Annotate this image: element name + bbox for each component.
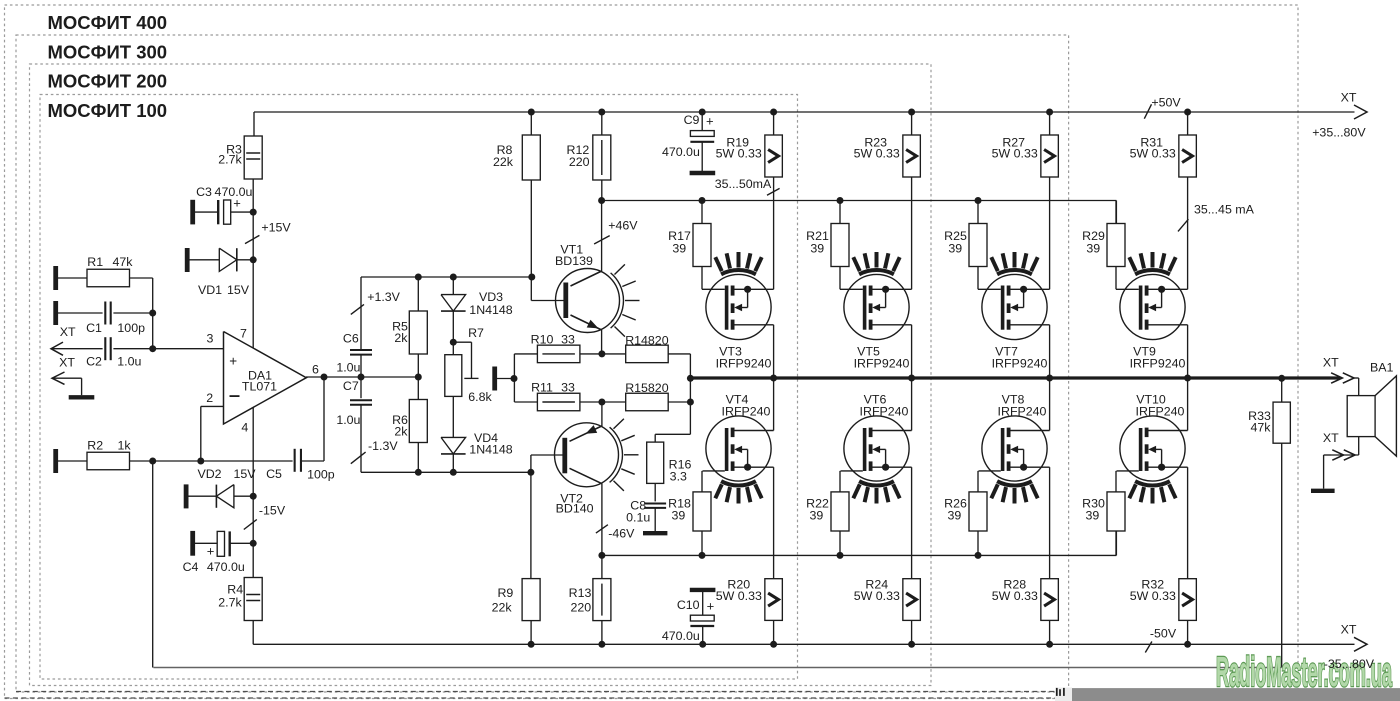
- svg-text:35...50mA: 35...50mA: [715, 177, 772, 191]
- svg-text:XT: XT: [1341, 623, 1357, 637]
- node XT arrow +50V: [1354, 105, 1367, 119]
- svg-text:R1: R1: [87, 255, 103, 269]
- wire C1 right: [113, 312, 152, 314]
- wire R8 top: [530, 112, 532, 135]
- wire VD3 top: [452, 277, 454, 295]
- wire R13 bottom: [601, 621, 603, 645]
- wire -50V rail: [253, 619, 1354, 644]
- svg-text:39: 39: [810, 242, 824, 256]
- capacitor C8: [644, 504, 666, 508]
- svg-text:15V: 15V: [227, 283, 250, 297]
- label -46V: [608, 527, 635, 541]
- label МОСФИТ 400: [48, 12, 168, 33]
- wire C8 bottom: [654, 508, 656, 531]
- wire VT2 emitter: [601, 402, 603, 426]
- watermark RadioMaster: [1216, 648, 1392, 695]
- label pin6: [312, 363, 319, 377]
- junction VT7 bus node: [1046, 375, 1053, 382]
- resistor R5: [409, 311, 427, 354]
- junction R5R6 node: [415, 374, 422, 381]
- node -46V tick: [596, 525, 608, 533]
- label R28 value: [992, 589, 1038, 603]
- svg-text:22k: 22k: [493, 155, 514, 169]
- svg-text:1.0u: 1.0u: [117, 355, 141, 369]
- junction VD1 node: [250, 256, 257, 263]
- wire R33 top: [1281, 378, 1283, 402]
- junction C2 node: [149, 345, 156, 352]
- wire R18 bottom: [701, 531, 703, 555]
- label VT7: [995, 345, 1018, 359]
- label R8: [497, 143, 513, 157]
- svg-text:IRFP240: IRFP240: [860, 405, 909, 419]
- label VT2: [560, 491, 583, 505]
- svg-text:4: 4: [241, 421, 248, 435]
- svg-text:МОСФИТ 300: МОСФИТ 300: [48, 41, 168, 62]
- label R13: [569, 586, 592, 600]
- resistor R9: [522, 579, 540, 621]
- wire output bus: [690, 376, 1340, 379]
- label XT output: [1323, 356, 1339, 370]
- label R20: [727, 578, 750, 592]
- label VD2 value: [233, 467, 256, 481]
- resistor R19: [765, 135, 783, 177]
- label R16: [669, 458, 692, 472]
- label VT6 type: [860, 405, 909, 419]
- wire R22 bottom: [839, 531, 841, 555]
- label R21 value: [810, 242, 824, 256]
- label +15V: [261, 221, 291, 235]
- svg-text:470.0u: 470.0u: [215, 185, 253, 199]
- svg-text:0.1u: 0.1u: [626, 511, 650, 525]
- svg-text:2.7k: 2.7k: [218, 153, 242, 167]
- wire R5 top: [417, 277, 419, 311]
- node XT arrow gnd: [52, 372, 65, 384]
- label R11 value: [561, 381, 575, 395]
- svg-text:5W 0.33: 5W 0.33: [716, 589, 762, 603]
- label R4 value: [218, 596, 242, 610]
- ground output: [1311, 489, 1335, 493]
- label R10: [531, 333, 554, 347]
- resistor R8: [522, 135, 540, 180]
- resistor R3: [244, 136, 262, 179]
- label VD1 value: [227, 283, 250, 297]
- svg-text:+1.3V: +1.3V: [367, 290, 400, 304]
- wire return to ground: [1324, 455, 1331, 489]
- label R32: [1141, 578, 1164, 592]
- label R24: [865, 578, 888, 592]
- junction VT9 bus node: [1184, 375, 1191, 382]
- transistor VT6: [841, 416, 912, 504]
- junction R24 rail node: [908, 641, 915, 648]
- wire VT3 drain: [773, 325, 775, 378]
- capacitor C5: [295, 449, 301, 472]
- junction pin2 node: [197, 458, 204, 465]
- wire VT10 source: [1187, 467, 1189, 579]
- wire R9 top: [530, 472, 532, 578]
- label C10: [677, 598, 700, 612]
- capacitor C9: [690, 131, 714, 171]
- svg-text:+46V: +46V: [608, 219, 638, 233]
- wire R11 left: [514, 401, 537, 403]
- junction bus start: [687, 375, 694, 382]
- wire VD3-R7: [452, 311, 454, 355]
- label R32 value: [1130, 589, 1176, 603]
- wire pin2: [201, 406, 223, 461]
- wire pin6 out: [306, 376, 418, 378]
- label C3 value: [215, 185, 253, 199]
- wire R25 to gate: [977, 267, 979, 290]
- svg-text:2: 2: [206, 391, 213, 405]
- svg-text:39: 39: [948, 242, 962, 256]
- svg-text:39: 39: [810, 509, 824, 523]
- svg-text:1k: 1k: [117, 439, 131, 453]
- terminal input R2: [53, 449, 58, 473]
- svg-text:C10: C10: [677, 598, 700, 612]
- junction R26 rail node: [975, 552, 982, 559]
- junction bias top end: [528, 274, 535, 281]
- wire C9 top: [701, 112, 703, 131]
- resistor R32: [1179, 579, 1197, 621]
- terminal input C1: [53, 301, 58, 325]
- wire R28 bottom: [1049, 620, 1051, 644]
- label R2: [87, 439, 103, 453]
- resistor R33: [1273, 402, 1290, 443]
- label R25 value: [948, 242, 962, 256]
- ground C9: [690, 171, 716, 175]
- wire VT7 drain: [1049, 325, 1051, 378]
- wire R1 left: [58, 277, 87, 279]
- ground input: [69, 395, 95, 399]
- wire R21 to gate: [839, 267, 841, 290]
- wire R11-R15: [580, 401, 626, 403]
- svg-text:5W 0.33: 5W 0.33: [992, 589, 1038, 603]
- label R19: [726, 136, 749, 150]
- label C6: [343, 332, 359, 346]
- wire R22 top: [839, 471, 841, 492]
- svg-text:39: 39: [672, 509, 686, 523]
- label VD1: [198, 283, 222, 297]
- label C8: [630, 499, 646, 513]
- wire C4 left: [195, 542, 217, 544]
- node 35-45mA tick: [1178, 219, 1188, 231]
- junction VT5 bus node: [908, 375, 915, 382]
- wire R31 to source: [1187, 177, 1189, 289]
- junction R25 rail node: [975, 197, 982, 204]
- label R5 value: [394, 331, 408, 345]
- label pin7: [240, 327, 247, 341]
- resistor R17: [693, 224, 711, 267]
- label DA1 type: [242, 380, 277, 394]
- junction VD4 bottom node: [450, 469, 457, 476]
- wire R23 to source: [911, 177, 913, 289]
- wire VT2 base: [531, 455, 566, 472]
- wire R15 right: [668, 401, 690, 403]
- label VD4 type: [469, 443, 513, 457]
- label pin4: [241, 421, 248, 435]
- junction feedback node: [149, 458, 156, 465]
- label C1 value: [117, 321, 145, 335]
- label R18: [668, 497, 691, 511]
- svg-text:100p: 100p: [307, 467, 335, 481]
- node XT arrow -50V: [1354, 637, 1367, 651]
- svg-text:XT: XT: [1323, 356, 1339, 370]
- wire R16-C8: [654, 483, 656, 501]
- svg-text:39: 39: [948, 509, 962, 523]
- frame box МОСФИТ 100: [40, 95, 798, 680]
- label DA1: [248, 369, 272, 383]
- label BA1: [1370, 361, 1394, 375]
- label VT10: [1136, 393, 1166, 407]
- junction C10 rail node: [699, 641, 706, 648]
- wire C4 right: [230, 542, 254, 544]
- wire VT6 source: [911, 467, 913, 579]
- wire R2 right: [130, 460, 293, 462]
- terminal input R1: [53, 266, 58, 290]
- svg-text:RadioMaster.com.ua: RadioMaster.com.ua: [1216, 648, 1392, 695]
- wire pin7 vertical: [252, 179, 254, 348]
- label R19 value: [716, 147, 762, 161]
- label VT6: [864, 393, 887, 407]
- wire VT2 collector: [601, 484, 603, 556]
- node 35-50mA tick: [767, 188, 780, 195]
- svg-text:39: 39: [1086, 242, 1100, 256]
- svg-text:R4: R4: [227, 583, 243, 597]
- wire R19 top: [773, 112, 775, 135]
- label R2 value: [117, 439, 131, 453]
- label pin2: [206, 391, 213, 405]
- wire R12 top: [601, 112, 603, 135]
- node +50V tick: [1144, 104, 1151, 118]
- svg-text:R2: R2: [87, 439, 103, 453]
- svg-text:15V: 15V: [233, 467, 256, 481]
- svg-text:IRFP240: IRFP240: [998, 405, 1047, 419]
- wire C6-C7: [360, 355, 362, 399]
- terminal drive stub: [492, 367, 497, 391]
- label R10 value: [561, 333, 575, 347]
- node -15V tick: [244, 520, 257, 530]
- label R17: [668, 229, 691, 243]
- junction C4 node: [250, 540, 257, 547]
- resistor R30: [1107, 492, 1125, 531]
- resistor R28: [1041, 579, 1059, 621]
- label C4: [183, 560, 199, 574]
- svg-text:5W 0.33: 5W 0.33: [1130, 147, 1176, 161]
- label C9 plus: [706, 114, 714, 129]
- wire R24 bottom: [911, 620, 913, 644]
- svg-text:33: 33: [561, 381, 575, 395]
- svg-text:5W 0.33: 5W 0.33: [716, 147, 762, 161]
- label R21: [806, 229, 829, 243]
- capacitor C10: [690, 592, 714, 626]
- resistor R15: [626, 393, 669, 411]
- svg-text:+: +: [229, 354, 237, 369]
- svg-text:+35...80V: +35...80V: [1312, 126, 1366, 140]
- label R9: [497, 586, 513, 600]
- junction R27 rail node: [1046, 109, 1053, 116]
- wire R6 bottom: [417, 443, 419, 473]
- svg-text:C3: C3: [196, 185, 212, 199]
- svg-text:R14820: R14820: [625, 334, 669, 348]
- label R29: [1082, 229, 1105, 243]
- transistor VT7: [978, 252, 1050, 340]
- svg-text:1N4148: 1N4148: [469, 443, 513, 457]
- svg-text:5W 0.33: 5W 0.33: [1130, 589, 1176, 603]
- wire C10 bottom: [702, 626, 704, 644]
- resistor R16: [647, 442, 664, 483]
- label XT bottom right: [1341, 623, 1357, 637]
- svg-text:IRFP9240: IRFP9240: [716, 357, 772, 371]
- resistor R2: [87, 452, 130, 470]
- op-amp DA1: [224, 332, 307, 425]
- junction R7 top node: [450, 339, 457, 346]
- terminal C4: [190, 531, 195, 556]
- svg-text:470.0u: 470.0u: [207, 560, 245, 574]
- resistor R14: [626, 345, 669, 363]
- label VT3: [719, 345, 742, 359]
- junction R22 rail node: [837, 552, 844, 559]
- label C3: [196, 185, 212, 199]
- wire VT4 source: [773, 467, 775, 579]
- terminal VD1: [185, 248, 190, 272]
- svg-text:TL071: TL071: [242, 380, 277, 394]
- svg-text:C4: C4: [183, 560, 199, 574]
- wire pin4 vertical: [252, 407, 254, 577]
- capacitor C1: [105, 302, 110, 325]
- svg-text:XT: XT: [60, 325, 76, 339]
- label XT top right: [1341, 91, 1357, 105]
- junction R5 top node: [415, 274, 422, 281]
- junction R6 bottom node: [415, 469, 422, 476]
- wire R10-R14: [580, 353, 626, 355]
- svg-text:1.0u: 1.0u: [336, 413, 360, 427]
- wire VD4 bottom: [452, 454, 454, 472]
- label pin3: [207, 332, 214, 346]
- junction VT3 bus node: [770, 375, 777, 382]
- wire VT6 drain: [911, 378, 913, 431]
- label R5: [392, 320, 408, 334]
- svg-text:IRFP9240: IRFP9240: [854, 357, 910, 371]
- label R23 value: [854, 147, 900, 161]
- wire VT5 drain: [911, 325, 913, 378]
- label R26 value: [948, 509, 962, 523]
- wire bus to speaker: [1354, 378, 1359, 396]
- label -15V: [259, 504, 286, 518]
- label C5 value: [307, 467, 335, 481]
- junction bias rail bottom left: [598, 552, 605, 559]
- label VT3 type: [716, 357, 772, 371]
- label -50V: [1150, 627, 1177, 641]
- wire R26 bottom: [977, 531, 979, 555]
- wire VT10 drain: [1187, 378, 1189, 431]
- svg-text:22k: 22k: [492, 601, 513, 615]
- label R3: [226, 143, 242, 157]
- junction R21 rail node: [837, 197, 844, 204]
- capacitor C7: [350, 400, 372, 405]
- label VT2 type: [556, 501, 594, 515]
- label C8 value: [626, 511, 650, 525]
- svg-text:5W 0.33: 5W 0.33: [992, 147, 1038, 161]
- wire R8-base: [531, 180, 566, 301]
- junction R33 bus node: [1278, 375, 1285, 382]
- node bus arrows: [1331, 373, 1354, 383]
- junction R8 rail node: [528, 109, 535, 116]
- svg-text:3: 3: [207, 332, 214, 346]
- svg-text:47k: 47k: [1251, 421, 1272, 435]
- svg-text:220: 220: [569, 155, 590, 169]
- junction bias bottom end: [527, 469, 534, 476]
- label R22: [806, 497, 829, 511]
- wire R27 top: [1049, 112, 1051, 135]
- wire VT4 drain: [773, 378, 775, 431]
- resistor R6: [409, 400, 427, 443]
- transistor VT10: [1117, 416, 1188, 504]
- label R25: [944, 229, 967, 243]
- resistor R1: [87, 269, 130, 287]
- svg-text:2k: 2k: [394, 425, 408, 439]
- label R17 value: [672, 242, 686, 256]
- junction VT2 emitter node: [598, 399, 605, 406]
- label VD3: [479, 290, 503, 304]
- wire R33 bottom: [1281, 443, 1283, 667]
- wire bias rail top: [602, 201, 1117, 224]
- svg-text:470.0u: 470.0u: [662, 145, 700, 159]
- resistor R11: [537, 393, 580, 411]
- resistor R18: [693, 492, 711, 531]
- label R9 value: [492, 601, 513, 615]
- svg-text:C9: C9: [684, 113, 700, 127]
- label C9: [684, 113, 700, 127]
- svg-text:3.3: 3.3: [670, 470, 687, 484]
- label R33: [1248, 409, 1271, 423]
- junction R31 rail node: [1184, 109, 1191, 116]
- wire R25 top: [977, 201, 979, 224]
- label XT input 1: [60, 325, 76, 339]
- label VT9 type: [1130, 357, 1186, 371]
- label R4: [227, 583, 243, 597]
- svg-text:XT: XT: [1323, 431, 1339, 445]
- wire R30 top: [1115, 471, 1117, 492]
- label VD2: [197, 467, 221, 481]
- label C10 value: [662, 629, 700, 643]
- junction C9 rail node: [699, 109, 706, 116]
- resistor R29: [1107, 224, 1125, 267]
- capacitor C6: [350, 350, 372, 355]
- junction R15 bus vertical: [687, 399, 694, 406]
- junction R13 rail node: [598, 641, 605, 648]
- wire feedback vertical left: [152, 461, 154, 668]
- svg-text:IRFP9240: IRFP9240: [1130, 357, 1186, 371]
- svg-text:6.8k: 6.8k: [468, 390, 492, 404]
- label XT return: [1323, 431, 1339, 445]
- label +1.3V: [367, 290, 400, 304]
- resistor R12: [593, 135, 611, 180]
- capacitor C2: [105, 337, 110, 360]
- label R13 value: [570, 601, 591, 615]
- wire R14 right: [668, 354, 690, 378]
- resistor R24: [903, 579, 921, 621]
- label R20 value: [716, 589, 762, 603]
- label C5: [266, 467, 282, 481]
- label R14: [625, 334, 669, 348]
- wire R7-VD4: [452, 396, 454, 437]
- label VT4 type: [722, 405, 771, 419]
- wire R19 to source: [773, 177, 775, 289]
- wire R30 bottom: [1115, 531, 1117, 555]
- svg-text:100p: 100p: [117, 321, 145, 335]
- label VT5 type: [854, 357, 910, 371]
- transistor VT4: [703, 416, 774, 504]
- junction pin6 node: [321, 374, 328, 381]
